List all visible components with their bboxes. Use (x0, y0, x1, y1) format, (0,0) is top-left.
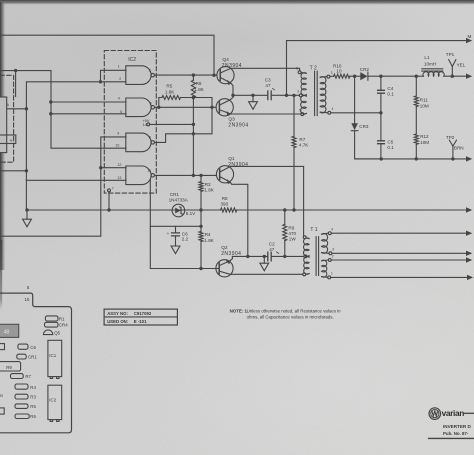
board part R5 (15, 404, 28, 409)
svg-text:R3: R3 (30, 395, 36, 400)
label C2 pointer (276, 252, 278, 254)
svg-text:R7: R7 (25, 374, 31, 379)
ground symbol left (23, 219, 32, 227)
junction at (26.4,108.8) (25, 107, 28, 110)
wire: IC1 output to left vertical (7, 108, 27, 110)
junction pin7 on ground bus (107, 208, 110, 211)
svg-text:T 1: T 1 (310, 227, 317, 233)
svg-text:CR4: CR4 (59, 323, 68, 328)
wire: R5 to node (181, 98, 213, 108)
wire: node vertical x193 (192, 98, 194, 176)
inductor L1 winding (423, 72, 444, 76)
capacitor C4 plates (378, 90, 385, 93)
svg-text:R6: R6 (196, 81, 202, 86)
test point TP2 symbol (449, 140, 456, 159)
transistor Q1 circle (216, 166, 233, 183)
svg-text:7: 7 (299, 108, 301, 112)
svg-text:R5: R5 (30, 404, 36, 409)
wire: T1 output pin3 line (332, 252, 466, 254)
junction ground symbol tap (25, 208, 28, 211)
svg-text:IC1: IC1 (49, 353, 56, 358)
wire: C6 branch line (150, 225, 201, 227)
gate IC2-D body (126, 166, 151, 185)
wire: pin14 +5V line (150, 123, 194, 125)
wire: T1 output pin4 line (331, 232, 466, 234)
resistor R9 (283, 224, 287, 240)
capacitor C6 plates (172, 233, 180, 236)
wire: center ground stem (252, 95, 254, 101)
board part IC2 notches (50, 420, 59, 422)
transistor Q2 collector (219, 271, 303, 274)
wire: gate3 output link (155, 107, 212, 142)
T1 secondary pin 4 (328, 232, 331, 235)
transistor Q4 emitter arrow (227, 80, 231, 85)
svg-text:1.8K: 1.8K (204, 187, 214, 192)
wire: R3 top lead (200, 175, 202, 181)
junction emitter/ground (251, 94, 254, 97)
transistor Q3 emitter (219, 110, 301, 114)
svg-text:M: M (468, 34, 472, 39)
T1 secondary pin 3 (329, 252, 332, 255)
svg-text:R7: R7 (299, 137, 305, 142)
gate IC2-C body (126, 133, 151, 152)
svg-text:R1: R1 (59, 317, 65, 322)
junction at (15.6,70.6) (14, 69, 17, 72)
junction TP2 tap (451, 157, 454, 160)
junction R9 bottom (283, 255, 286, 258)
transistor Q4 circle (217, 67, 234, 84)
assembly table box (104, 309, 177, 325)
board part R1 (45, 316, 58, 321)
resistor R11 (414, 96, 418, 107)
board part Q5 (43, 330, 52, 335)
IC1 dashed outline (partial) (0, 75, 14, 162)
transformer T1 secondary winding lower (322, 260, 327, 277)
svg-text:R11: R11 (420, 98, 429, 103)
capacitor C3 plates (268, 91, 271, 100)
junction C5 on bottom bus (380, 157, 383, 160)
resistor R12 (414, 134, 418, 145)
junction gate3 link (192, 132, 195, 135)
svg-text:3: 3 (332, 248, 334, 252)
junction TP1 tap (451, 75, 454, 78)
svg-text:IC2: IC2 (49, 398, 56, 403)
svg-text:4: 4 (118, 97, 120, 101)
diode CR3 top lead (354, 76, 356, 123)
junction gate2 pin5 tap (49, 112, 52, 115)
transistor Q3 emitter arrow (227, 111, 232, 116)
wire: R6 top lead (192, 75, 194, 80)
board part R4 (15, 384, 28, 389)
svg-text:1N4733A: 1N4733A (169, 197, 189, 202)
wire: L1 to TP1 to edge (444, 75, 466, 77)
T1 primary pin top (303, 236, 306, 239)
wire: mid node to C5 (380, 113, 382, 141)
wire: C3 to T2 mid pin (272, 94, 300, 96)
T2 primary pin bottom (301, 113, 304, 116)
svg-text:10M: 10M (420, 140, 429, 145)
board part R3 (15, 394, 28, 399)
wire: R5 left riser (159, 98, 162, 108)
svg-text:2.2: 2.2 (182, 237, 189, 242)
gate IC2-A body (126, 66, 151, 85)
svg-text:Q5: Q5 (54, 330, 60, 335)
wire: bottom return bus (355, 158, 466, 160)
transistor Q2 base lead (201, 268, 219, 270)
svg-text:C4: C4 (387, 86, 393, 91)
svg-text:BRN: BRN (454, 146, 464, 151)
T2 primary pin top (298, 71, 301, 74)
svg-text:1.8K: 1.8K (165, 89, 175, 94)
resistor R8 (221, 208, 237, 212)
board part IC1 notches (50, 377, 59, 379)
junction C4 top node (379, 75, 382, 78)
transistor Q2 base bar (218, 263, 220, 274)
wire: left vertical to ground, gate1 pin2 input (26, 82, 126, 210)
svg-text:4B: 4B (4, 329, 11, 335)
wire: C5 bottom lead (380, 144, 382, 159)
svg-text:R3: R3 (205, 182, 211, 187)
board connector 4B box (0, 324, 19, 337)
transistor Q4 base bar (219, 70, 221, 81)
wire: emitter bus left (232, 255, 267, 257)
Varian logo outer circle (429, 408, 441, 420)
assembly table divider (104, 316, 177, 318)
wire: ground bus left of R8 (27, 209, 221, 211)
gate IC2-D body output bubble (151, 174, 154, 177)
wire: R7 bottom lead (293, 148, 295, 210)
junction CR1 line (199, 208, 202, 211)
wire: gate2 pin4 input (51, 101, 126, 103)
svg-text:2: 2 (332, 254, 334, 258)
board edge stub lower (0, 408, 4, 414)
transistor Q3 circle (216, 99, 233, 116)
transformer T1 primary winding upper (304, 238, 310, 256)
wire: left ground stem (26, 210, 28, 219)
wire: T1 output pin2 line (331, 259, 466, 261)
svg-text:L1: L1 (424, 55, 430, 60)
resistor R9 bottom lead (284, 241, 286, 257)
junction x193 on Q1 base (192, 174, 195, 177)
wire: C6 bottom lead (175, 236, 177, 246)
transformer T1 primary winding lower (304, 257, 309, 275)
transistor Q3 collector (219, 95, 233, 105)
board part R6 (15, 414, 29, 419)
gate IC2-A body output bubble (151, 73, 154, 76)
svg-text:4.7K: 4.7K (299, 142, 309, 147)
svg-text:2N3904: 2N3904 (222, 63, 242, 69)
transistor Q4 emitter (220, 77, 233, 95)
board part IC2 box (48, 385, 62, 419)
junction R5/R6 node (192, 96, 195, 99)
T2 primary pin stubs (301, 72, 306, 114)
Varian logo VA glyph (432, 411, 438, 416)
svg-text:E -101: E -101 (134, 319, 147, 324)
diode CR3 triangle (351, 123, 358, 130)
test point TP1 symbol (449, 60, 456, 77)
svg-text:R6: R6 (30, 414, 36, 419)
wire: gate1 pin1 input stub (101, 70, 127, 82)
capacitor C5 plates (378, 141, 385, 144)
svg-text:CR2: CR2 (360, 67, 370, 72)
T1 secondary pin 2 (328, 259, 331, 262)
wire: gate1 output to Q4 base (155, 74, 217, 76)
svg-text:0.1: 0.1 (387, 145, 394, 150)
transformer T1 secondary winding upper (322, 233, 328, 253)
zener CR1 symbol (175, 208, 181, 214)
svg-text:11: 11 (147, 169, 151, 173)
wire: feedback line y70.6 to gate2 inputs riser (0, 71, 126, 149)
junction Q4/Q3 totem (231, 94, 234, 97)
wire: T1 output pin1 line (331, 276, 467, 278)
transistor Q1 collector (220, 166, 304, 235)
transformer T2 secondary winding (320, 77, 326, 113)
wire: C4 leads (380, 76, 382, 113)
wire: R7 top lead (293, 95, 295, 136)
board part C6 (18, 344, 28, 349)
wire: gate2 pin5 input (51, 113, 126, 115)
junction R7 tap (292, 94, 295, 97)
junction R3 top (199, 174, 202, 177)
svg-text:0.1: 0.1 (387, 91, 394, 96)
svg-text:YEL: YEL (457, 62, 466, 67)
svg-text:4: 4 (332, 107, 334, 111)
wire: R11 to R12 (415, 107, 417, 134)
wire: R12 bottom lead (415, 144, 417, 159)
T1 primary pin mid (304, 255, 307, 258)
svg-text:varian: varian (442, 408, 465, 418)
svg-text:8: 8 (149, 136, 151, 140)
board part IC1 box (48, 340, 62, 376)
svg-text:IC2: IC2 (128, 57, 136, 63)
diode CR2 bar (367, 72, 369, 80)
junction R11 top (415, 75, 418, 78)
svg-text:R4: R4 (30, 385, 36, 390)
wire: R10 to CR2 (350, 75, 361, 77)
IC1 gate body (partial) (0, 97, 7, 153)
svg-text:NOTE: 1.: NOTE: 1. (230, 308, 249, 313)
svg-text:9: 9 (117, 132, 119, 136)
svg-text:R5: R5 (166, 84, 172, 89)
transformer T2 primary winding lower (301, 96, 307, 115)
svg-text:1.8K: 1.8K (194, 87, 204, 92)
svg-text:Unless otherwise noted, all Re: Unless otherwise noted, all Resistance v… (247, 308, 342, 313)
diode CR3 bar (351, 130, 358, 132)
junction C4/C5 mid node (379, 111, 382, 114)
svg-text:B: B (0, 393, 3, 398)
junction at (26.4,170.8) (25, 169, 28, 172)
svg-text:Pub. No. 87-: Pub. No. 87- (443, 431, 469, 436)
T1 primary pin bottom (303, 273, 306, 276)
diode CR3 bottom lead to bus (355, 131, 382, 159)
junction gate2 out / R5 stub (157, 106, 160, 109)
ground below emitter bus (260, 263, 269, 271)
wire: ground bus right of R8 (237, 209, 466, 211)
junction feedback/Q4 base (212, 74, 215, 77)
arrow: T1 pin3 off-page (466, 251, 472, 256)
svg-text:R12: R12 (420, 134, 429, 139)
wire: riser to top bus M (287, 41, 467, 96)
wire: gate4 output to Q1 base (155, 174, 217, 176)
svg-text:C5: C5 (387, 140, 393, 145)
junction emitter-bus ground (263, 255, 266, 258)
arrow: T1 pin2 off-page (466, 257, 472, 262)
svg-text:4: 4 (331, 227, 333, 231)
board part CR1 (17, 354, 26, 359)
svg-text:3: 3 (149, 68, 151, 72)
svg-text:CR1: CR1 (28, 355, 37, 360)
svg-text:2N3904: 2N3904 (228, 122, 248, 128)
pin 14 circle (147, 123, 150, 126)
title block dash (464, 412, 474, 414)
arrow: bottom bus off-page (466, 156, 472, 161)
arrow: output off-page right (466, 74, 472, 79)
label C3 pointer (272, 88, 274, 90)
IC2 dashed outline (104, 51, 156, 194)
wire: pin7 ground stub (108, 192, 110, 210)
svg-text:TP1: TP1 (446, 52, 455, 57)
resistor R3 (199, 182, 203, 192)
svg-text:1: 1 (118, 64, 120, 68)
svg-text:C3: C3 (265, 78, 271, 83)
svg-text:10: 10 (115, 144, 119, 148)
junction Q3 base link (210, 106, 213, 109)
T2 secondary pin top (327, 75, 330, 78)
svg-text:1: 1 (331, 272, 333, 276)
svg-text:1.8K: 1.8K (204, 238, 214, 243)
svg-text:C917092: C917092 (134, 311, 152, 316)
resistor R9 top lead (284, 210, 286, 224)
transistor Q1 emitter (220, 177, 248, 257)
T2 secondary stubs (320, 77, 328, 113)
PCB board outline (0, 293, 72, 433)
T2 secondary pin bottom (328, 111, 331, 114)
transistor Q3 base bar (218, 102, 220, 113)
board part R7 (11, 374, 24, 379)
junction Q2 base node (199, 267, 202, 270)
wire: center tap line (233, 94, 267, 96)
svg-text:5: 5 (120, 110, 122, 114)
board edge stub upper (0, 344, 5, 350)
svg-text:R9: R9 (6, 365, 12, 370)
svg-text:13: 13 (117, 176, 121, 180)
svg-text:R10: R10 (333, 63, 342, 68)
junction C6 branch (199, 225, 202, 228)
resistor R5 (162, 96, 181, 100)
junction R7 on ground bus (292, 208, 295, 211)
svg-text:5.1V: 5.1V (186, 211, 196, 216)
diode CR2 triangle (360, 72, 367, 80)
inductor L1 core lines (422, 69, 443, 71)
wire: R3 to CR1 node (200, 191, 202, 226)
svg-text:T 2: T 2 (310, 65, 317, 71)
zener CR1 bar (180, 207, 183, 214)
junction gate1 tied inputs (99, 80, 102, 83)
svg-text:2: 2 (119, 77, 121, 81)
transistor Q1 base bar (219, 169, 221, 180)
wire: emitter bus right (272, 255, 304, 257)
wire: rail C4node to R11 to L1 (381, 75, 424, 77)
wire: gate2 output to Q3 base (155, 106, 217, 108)
svg-text:7: 7 (112, 186, 114, 190)
capacitor C2 plates (268, 252, 271, 261)
transistor Q1 emitter arrow (227, 179, 231, 184)
transformer T1 core (316, 237, 319, 276)
svg-text:TP2: TP2 (446, 135, 455, 140)
svg-text:10M: 10M (420, 104, 429, 109)
resistor R11 top lead (415, 76, 417, 96)
junction riser to top bus (285, 94, 288, 97)
title block underline (429, 437, 474, 439)
wire: C6 top lead (175, 226, 177, 232)
wire: net E line into left vertical (0, 170, 26, 172)
svg-text:10: 10 (336, 69, 342, 74)
wire: T2 sec bottom to mid node (331, 112, 381, 114)
wire: gate4 pin12 input (101, 167, 126, 169)
ground below C6 (171, 246, 180, 254)
junction gate2 pin4 tap (49, 100, 52, 103)
gate IC2-B body (126, 98, 151, 117)
resistor R7 (292, 136, 296, 147)
transistor Q4 collector (220, 68, 299, 73)
svg-text:5: 5 (296, 67, 298, 71)
arrow: top bus off-page M (466, 38, 472, 43)
IC1 inner gate (partial) (0, 135, 16, 144)
gate IC2-B body output bubble (151, 106, 154, 109)
wire: top feedback bus to Q4 base (0, 35, 214, 75)
junction R9 on ground bus (283, 208, 286, 211)
svg-text:14: 14 (143, 123, 147, 127)
T1 secondary pin 1 (328, 276, 331, 279)
T2 primary pin mid (299, 94, 302, 97)
svg-text:+: + (167, 231, 170, 236)
transformer T2 primary winding upper (301, 73, 306, 96)
svg-text:6: 6 (150, 102, 152, 106)
arrow: T1 pin1 off-page (467, 275, 473, 280)
svg-text:R9: R9 (288, 226, 294, 231)
wire: R4 leads (200, 226, 202, 268)
wire: gate4 pin13 input (26, 179, 126, 181)
junction R12 on bottom bus (415, 157, 418, 160)
resistor R10 (334, 74, 350, 78)
pin 7 circle (108, 189, 111, 192)
transformer T2 core (315, 71, 318, 115)
svg-text:15: 15 (25, 297, 30, 302)
svg-text:3: 3 (331, 71, 333, 75)
svg-text:10mH: 10mH (424, 62, 436, 67)
T1 primary stubs (306, 238, 309, 274)
svg-text:1W: 1W (289, 237, 297, 242)
junction Q1 emitter (246, 255, 249, 258)
junction gate4 pin12 tap (99, 166, 102, 169)
wire: gate3 pin9 loop down to left edge (0, 137, 126, 236)
svg-text:12: 12 (117, 163, 121, 167)
wire: CR2 to C4 node (368, 75, 381, 77)
resistor R6 (191, 80, 195, 97)
wire: emitter ground stem (263, 256, 265, 263)
zener CR1 circle (172, 204, 185, 217)
T1 secondary stubs (322, 233, 329, 277)
transistor Q2 emitter (219, 256, 232, 265)
svg-text:2N3904: 2N3904 (228, 162, 248, 168)
arrow: T1 pin4 off-page (466, 231, 472, 236)
svg-text:INVERTER D: INVERTER D (443, 424, 472, 429)
board part CR4 (45, 322, 59, 327)
junction R6 top (192, 73, 195, 76)
wire: stub from junction down to IC1 (15, 71, 17, 97)
svg-text:ohms, all Capacitance values i: ohms, all Capacitance values in microfar… (247, 315, 334, 320)
ground below totem (249, 102, 258, 110)
